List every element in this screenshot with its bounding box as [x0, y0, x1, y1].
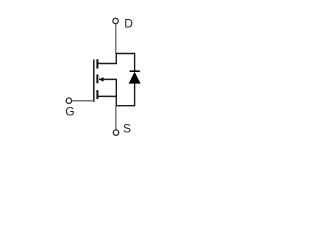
transistor Q1 body arrow head — [99, 77, 103, 82]
transistor Q1 source stub — [97, 95, 117, 97]
svg-text:S: S — [123, 122, 131, 136]
body diode D1 cathode wire — [134, 53, 136, 72]
wire source stem — [115, 106, 117, 130]
wire gate — [72, 100, 95, 102]
transistor Q1 channel bottom segment — [96, 90, 98, 99]
body diode D1 cathode bar — [130, 70, 140, 72]
transistor Q1 body arrow line — [99, 78, 117, 80]
transistor Q1 channel middle segment — [96, 74, 98, 83]
transistor Q1 channel top segment — [96, 59, 98, 68]
body diode D1 anode triangle — [129, 72, 141, 84]
svg-text:D: D — [124, 17, 133, 31]
wire drain stem — [115, 24, 117, 54]
transistor Q1 gate bar — [93, 59, 95, 102]
wire drain tee to diode cathode — [116, 53, 135, 55]
body diode D1 anode wire — [134, 83, 136, 106]
terminal S — [113, 130, 118, 135]
terminal G — [66, 98, 71, 103]
wire source tee to diode anode — [116, 105, 135, 107]
transistor Q1 drain stub — [97, 63, 117, 65]
wire drain vertical to drain stub — [115, 53, 117, 64]
wire bulk-to-source vertical — [115, 79, 117, 106]
svg-text:G: G — [65, 105, 74, 119]
terminal D — [113, 18, 118, 23]
